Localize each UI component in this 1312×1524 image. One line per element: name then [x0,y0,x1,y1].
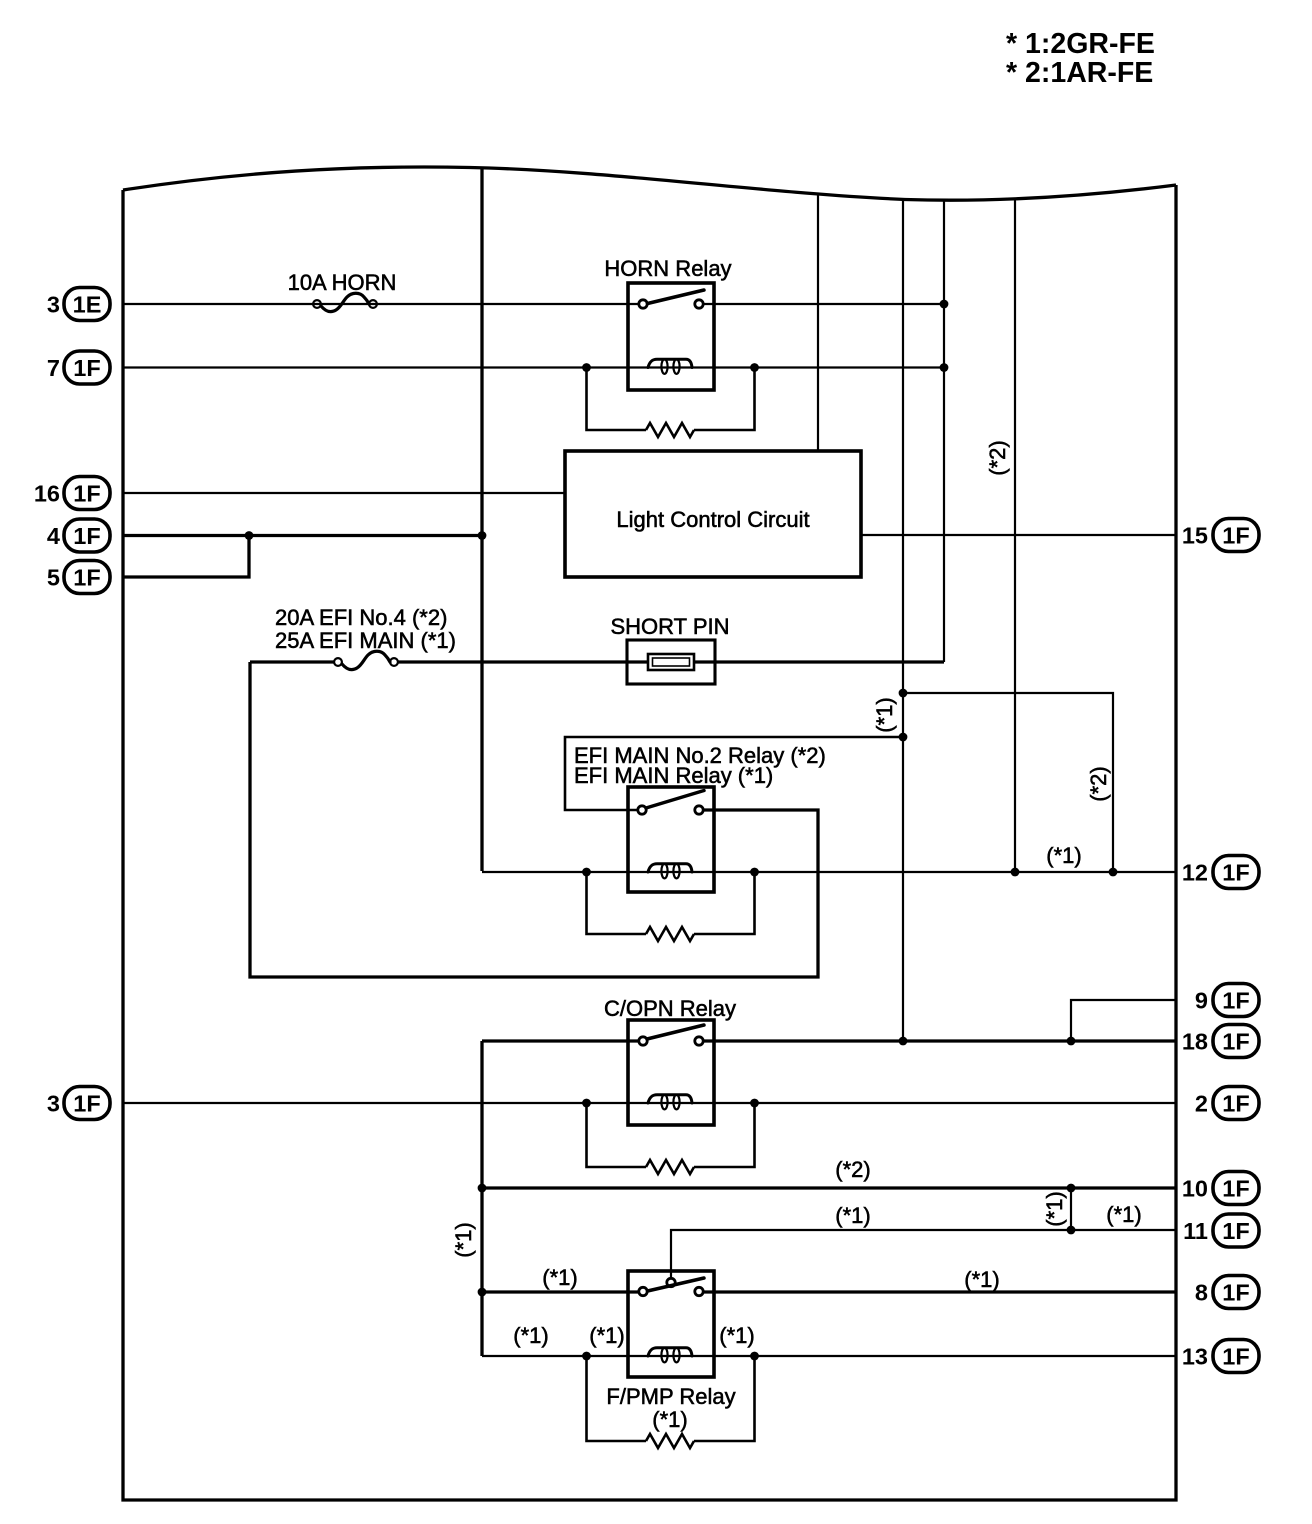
svg-text:2: 2 [1195,1091,1208,1117]
horn relay U1 [604,256,731,390]
svg-text:5: 5 [47,565,60,591]
F/PMP relay switch contacts [639,1287,647,1295]
svg-text:(*1): (*1) [719,1323,754,1348]
wire vertical x=903 [902,199,904,1041]
node bus vertical x=482 upper [480,167,483,871]
pin 7 connector 1F [47,351,110,384]
pin 10 connector 1F [1182,1172,1259,1205]
svg-text:1F: 1F [1222,1280,1249,1306]
junction bus x482 y535 [478,531,487,540]
junction C/OPN coil right [750,1099,759,1108]
junction horn coil left [582,363,591,372]
fuse 10A HORN [288,270,397,312]
junction x944 y367 [940,363,949,372]
svg-text:16: 16 [34,481,60,507]
wire pin16(1F) to light control circuit [123,492,565,494]
svg-text:(*1): (*1) [835,1203,870,1228]
svg-text:10A HORN: 10A HORN [288,270,397,295]
wire pin11(1F) line [671,1230,1176,1278]
svg-text:(*2): (*2) [1086,766,1111,801]
pin 2 connector 1F [1195,1087,1259,1120]
svg-text:8: 8 [1195,1280,1208,1306]
pin 4 connector 1F [47,519,110,552]
short pin [611,614,730,684]
svg-text:(*1): (*1) [1046,843,1081,868]
svg-text:(*1): (*1) [589,1323,624,1348]
wire EFI fuse loop to relay switch [250,662,818,977]
EFI relay switch contacts [638,806,646,814]
C/OPN relay coil [648,1095,692,1103]
svg-text:18: 18 [1182,1029,1208,1055]
wire pin13(1F) line [482,1355,1176,1357]
C/OPN relay U4 [604,996,736,1125]
svg-text:* 2:1AR-FE: * 2:1AR-FE [1006,57,1153,89]
svg-text:(*1): (*1) [513,1323,548,1348]
svg-text:13: 13 [1182,1344,1208,1370]
svg-text:(*1): (*1) [451,1222,476,1257]
EFI relay resistor R [646,927,694,941]
svg-text:(*1): (*1) [1042,1191,1067,1226]
svg-text:1F: 1F [1222,1344,1249,1370]
wire pin3(1F) to pin2(1F) coil line [123,1102,1176,1104]
junction EFI coil right [750,868,759,877]
svg-text:11: 11 [1183,1218,1208,1244]
pin 9 connector 1F [1195,984,1259,1017]
EFI relay resistor loop [587,872,755,934]
EFI relay switch blade [646,791,704,809]
EFI relay coil [648,864,692,872]
wire EFI relay switch feed [565,737,903,810]
wire pin3(1E) to horn relay switch [123,303,944,305]
svg-text:1F: 1F [1222,860,1249,886]
svg-text:4: 4 [47,523,60,549]
svg-text:12: 12 [1182,860,1208,886]
wire pin4(1F) [123,534,481,537]
svg-text:3: 3 [47,1091,60,1117]
svg-text:7: 7 [47,355,60,381]
svg-text:(*1): (*1) [872,697,897,732]
horn relay resistor R [646,423,694,437]
horn relay switch blade [648,290,705,304]
junction EFI coil left [582,868,591,877]
svg-text:1F: 1F [1222,1029,1249,1055]
wire 18 line C/OPN switch [482,1039,1176,1042]
junction x903 y737 [899,733,908,742]
C/OPN relay resistor loop [587,1103,755,1167]
pin 12 connector 1F [1182,856,1259,889]
junction x903 y1041 [899,1037,908,1046]
svg-text:3: 3 [47,292,60,318]
F/PMP relay switch blade [648,1278,705,1291]
svg-text:SHORT PIN: SHORT PIN [611,614,730,639]
wire vertical x=818 to light control [817,194,819,451]
pin 8 connector 1F [1195,1276,1259,1309]
F/PMP relay resistor R [646,1434,694,1448]
wire pin8(1F) line F/PMP switch [482,1290,1176,1293]
pin 11 connector 1F [1183,1214,1259,1247]
svg-text:20A EFI No.4 (*2): 20A EFI No.4 (*2) [275,605,447,630]
F/PMP relay U5 [606,1271,735,1432]
pin 3 connector 1F lower [47,1087,110,1120]
node bus vertical x=482 lower [480,1041,483,1356]
junction x1071 y1230 [1067,1226,1076,1235]
wire x903 to x1113 link [903,693,1113,872]
svg-text:EFI MAIN Relay (*1): EFI MAIN Relay (*1) [574,763,773,788]
svg-text:15: 15 [1182,523,1208,549]
fuse 20A EFI No.4 / 25A EFI MAIN [275,605,456,670]
svg-text:9: 9 [1195,988,1208,1014]
pin 16 connector 1F [34,477,110,510]
F/PMP relay switch top contact [667,1278,675,1286]
svg-text:1F: 1F [73,481,100,507]
svg-text:(*1): (*1) [542,1265,577,1290]
horn relay resistor loop [587,368,755,431]
svg-text:(*2): (*2) [835,1157,870,1182]
frame (junction block outline) [123,185,1176,1500]
svg-text:1F: 1F [73,355,100,381]
svg-text:C/OPN Relay: C/OPN Relay [604,996,736,1021]
light control circuit U2 [565,451,861,577]
F/PMP relay resistor loop [587,1356,755,1441]
F/PMP relay coil [648,1348,692,1356]
wire 10-11 link x1071 [1070,1188,1072,1230]
junction C/OPN coil left [582,1099,591,1108]
svg-text:1F: 1F [73,565,100,591]
pin 5 connector 1F [47,561,110,594]
EFI MAIN relay U3 [574,743,826,892]
wire light control to pin15(1F) [861,534,1176,536]
pin 3 connector 1E [47,288,110,321]
svg-text:F/PMP Relay: F/PMP Relay [606,1384,735,1409]
svg-text:1F: 1F [1222,988,1249,1014]
wire EFI fuse line to short pin [250,660,944,663]
svg-text:(*1): (*1) [964,1267,999,1292]
horn relay coil [648,359,692,367]
svg-text:1F: 1F [73,1091,100,1117]
junction x903 y693 [899,689,908,698]
junction horn coil right [750,363,759,372]
pin 13 connector 1F [1182,1340,1259,1373]
svg-text:25A EFI MAIN (*1): 25A EFI MAIN (*1) [275,628,456,653]
horn relay switch contacts [639,300,647,308]
junction x1071 y1188 [1067,1184,1076,1193]
junction 4-5 tie [245,531,254,540]
wire vertical x=944 [943,200,945,662]
svg-text:(*2): (*2) [985,440,1010,475]
wire pin10(1F) line [481,1186,1176,1189]
junction x1015 y872 [1011,868,1020,877]
svg-text:1F: 1F [1222,1218,1249,1244]
C/OPN relay resistor R [646,1160,694,1174]
svg-text:(*1): (*1) [652,1407,687,1432]
wire pin7(1F) horn coil line [123,366,944,368]
svg-text:1E: 1E [73,292,102,318]
wire vertical x=1015 (*2) [1014,198,1016,872]
wire pin9(1F) stub [1071,1000,1176,1041]
junction bus x482 y1188 [478,1184,487,1193]
svg-text:1F: 1F [73,523,100,549]
svg-text:1F: 1F [1222,1091,1249,1117]
junction F/PMP coil right [750,1352,759,1361]
junction x1113 y872 [1109,868,1118,877]
junction bus x482 y1292 [478,1288,487,1297]
svg-text:1F: 1F [1222,1176,1249,1202]
C/OPN relay switch blade [647,1025,704,1039]
junction F/PMP coil left [582,1352,591,1361]
svg-text:10: 10 [1182,1176,1208,1202]
pin 15 connector 1F [1182,519,1259,552]
svg-text:(*1): (*1) [1106,1202,1141,1227]
wire pin5(1F) [123,536,249,578]
svg-text:* 1:2GR-FE: * 1:2GR-FE [1006,28,1155,60]
svg-text:Light Control Circuit: Light Control Circuit [616,507,809,532]
svg-text:1F: 1F [1222,523,1249,549]
junction x1071 y1041 [1067,1037,1076,1046]
C/OPN relay switch contacts [639,1037,647,1045]
pin 18 connector 1F [1182,1025,1259,1058]
svg-text:HORN Relay: HORN Relay [604,256,731,281]
junction x944 y304 [940,300,949,309]
wire 12 line [482,871,1176,873]
